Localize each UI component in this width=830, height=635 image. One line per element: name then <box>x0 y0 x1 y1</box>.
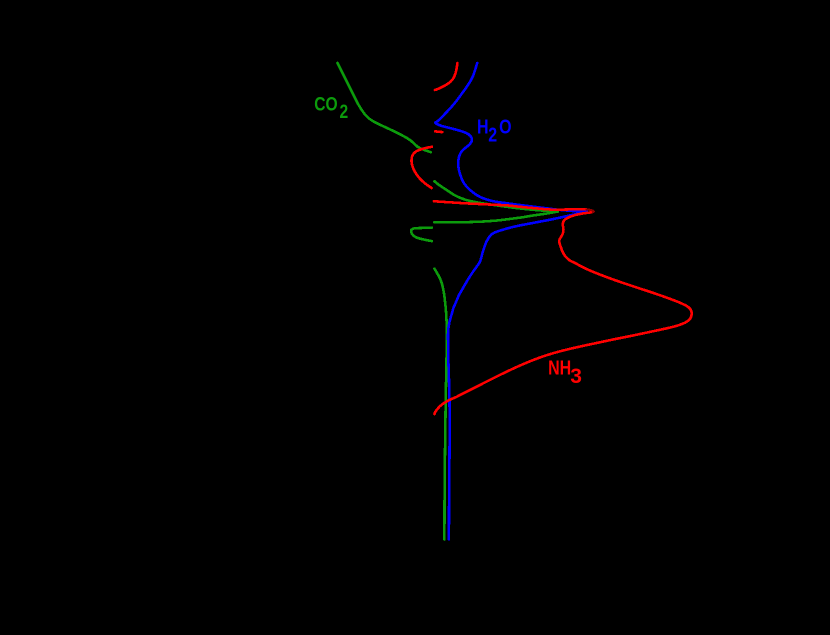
svg-text:NH: NH <box>548 357 571 379</box>
svg-text:CO: CO <box>314 93 337 115</box>
svg-text:3: 3 <box>570 365 582 388</box>
svg-text:O: O <box>499 116 511 138</box>
svg-text:H: H <box>477 116 489 138</box>
svg-text:2: 2 <box>488 124 497 146</box>
svg-text:2: 2 <box>340 100 349 122</box>
